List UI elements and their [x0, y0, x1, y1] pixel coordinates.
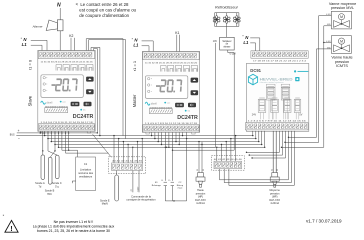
svg-text:40 41 42 43 44 45 46: 40 41 42 43 44 45 46 — [112, 160, 143, 162]
controller U3 brand wordmark — [260, 78, 294, 85]
wire dc91 stair 2 — [249, 131, 283, 156]
version label — [306, 219, 342, 224]
wire slave edge pair a — [94, 48, 98, 133]
svg-text:24V: 24V — [252, 113, 257, 116]
wire alarm to terminal 26 — [59, 31, 61, 51]
wire drive control 0-10V — [172, 50, 234, 151]
device U2-master display panel — [145, 76, 187, 99]
device U2-master set button — [175, 103, 184, 108]
wire block X2 loop 1 — [220, 131, 289, 180]
pressure sensor HP pin labels — [197, 169, 205, 171]
label vanne moyenne pression — [329, 2, 356, 10]
svg-text:HEVVEL·BRED: HEVVEL·BRED — [260, 78, 294, 82]
label sonde B — [45, 190, 55, 196]
svg-text:DC91: DC91 — [250, 68, 261, 73]
label BUS — [10, 135, 15, 137]
wire MVL signal — [284, 16, 331, 143]
valve MVL body — [331, 11, 351, 29]
svg-text:11 31 32 33 26 41 28 26 23 03: 11 31 32 33 26 41 28 26 23 03 25 24 21 3… — [145, 63, 198, 65]
controller U3 output block 3 — [283, 98, 291, 119]
device U2-master DIN rail feet — [146, 132, 195, 134]
device U1-slave model label DC24TR — [73, 114, 94, 120]
wire dc91 terminal drop 3 — [258, 131, 259, 142]
device U1-slave top terminal numbers — [41, 62, 94, 64]
device U2-master brand logo row — [145, 102, 170, 106]
pressure sensor MP wires — [273, 131, 276, 173]
wire MVL ground — [281, 26, 332, 148]
device U1-slave brand logo row — [41, 101, 66, 105]
device U1-slave body — [38, 50, 95, 131]
device U2-master up button — [191, 78, 199, 83]
wire 10V signal — [166, 43, 215, 148]
wire master terminal drop 5 — [168, 132, 169, 148]
wire slave terminal drop 5 — [54, 131, 55, 145]
label sonde E — [100, 200, 110, 206]
svg-text:est coupé en cas d’alarme ou: est coupé en cas d’alarme ou — [79, 8, 136, 13]
device U2-master programming connector — [149, 107, 172, 113]
wire N to alarm relay — [59, 8, 61, 20]
wire shield diagonal — [93, 134, 112, 157]
svg-text:V₂: V₂ — [168, 180, 170, 182]
wire block X1 feed 6 — [137, 141, 138, 163]
svg-text:Slave: Slave — [28, 95, 33, 106]
controller U3 output block 1 — [258, 98, 266, 119]
wire block X1 feed 4 — [127, 144, 128, 163]
label GND valve MVL — [327, 24, 332, 26]
controller U3 relay header boxes — [266, 84, 289, 87]
svg-text:Ne pas inverser L1 et N !!: Ne pas inverser L1 et N !! — [54, 220, 94, 224]
svg-text:L1: L1 — [22, 42, 28, 47]
svg-text:nocturne des: nocturne des — [78, 171, 94, 175]
wire bus line 3 — [51, 141, 258, 143]
device U1-slave bottom terminal numbers — [41, 122, 94, 124]
label BY — [131, 188, 133, 191]
wire MP sensor feed a — [272, 131, 274, 173]
svg-text:care: care — [167, 102, 170, 105]
wire fans to drive — [226, 26, 228, 37]
label bus minus — [18, 137, 20, 141]
label Alarme — [32, 25, 43, 29]
svg-text:Commande de la: Commande de la — [131, 194, 151, 198]
svg-text:17 18 19 16 17 18 21 22 23 24: 17 18 19 16 17 18 21 22 23 24 1 2 3 4 — [253, 61, 307, 63]
fan bank frame — [215, 13, 239, 27]
device U1-slave display panel — [41, 75, 83, 98]
wire master to contact C2 — [171, 132, 173, 180]
controller U3 bottom terminal strip — [245, 123, 308, 130]
svg-text:DC24TR: DC24TR — [73, 114, 94, 120]
wire setpoint cmd b — [138, 171, 140, 193]
svg-text:r1 = 0: r1 = 0 — [28, 59, 33, 70]
wire master terminal drop 2 — [154, 132, 155, 139]
wire L1 into master — [142, 46, 149, 52]
label L1 phase dc91 — [243, 40, 249, 45]
wire master terminal drop 8 — [182, 132, 183, 136]
wire slave terminal drop 2 — [44, 131, 45, 136]
wire bus line 2 — [48, 138, 256, 140]
wire master terminal drop 4 — [161, 132, 162, 145]
device U1-slave bottom terminal strip — [38, 124, 94, 131]
HP sensor bus taps — [198, 141, 202, 145]
wire K2 contact b — [74, 38, 76, 51]
svg-text:7DC: 7DC — [47, 193, 52, 196]
pressure sensor HP wires — [199, 142, 202, 173]
svg-text:Limitation: Limitation — [80, 168, 92, 172]
svg-text:BUS: BUS — [10, 135, 15, 137]
svg-text:r1 = 1: r1 = 1 — [132, 60, 137, 71]
svg-text:dixell: dixell — [46, 101, 52, 105]
svg-text:13: 13 — [197, 169, 199, 171]
wire block X2 feed 3 — [226, 141, 227, 161]
svg-text:K2: K2 — [69, 34, 73, 38]
device U2-master bottom terminal strip — [143, 125, 199, 132]
svg-text:DC24TR: DC24TR — [177, 115, 198, 121]
device U2-master top connector silhouettes — [161, 65, 198, 71]
controller U3 24V label — [252, 113, 257, 116]
label vanne haute pression — [331, 56, 352, 68]
pressure sensor MP body — [270, 173, 279, 188]
label sonde C — [52, 182, 62, 188]
svg-text:ventilateurs: ventilateurs — [79, 174, 93, 178]
svg-text:1 2 3 4 5 6 7 8 9 10 11 12 13: 1 2 3 4 5 6 7 8 9 10 11 12 13 14 15 16 — [248, 121, 307, 123]
svg-text:vitesse: vitesse — [223, 46, 231, 49]
label GND valve ICMTS — [327, 47, 332, 49]
controller U3 relay column K-B — [281, 86, 290, 119]
device U2-master bottom terminal numbers — [145, 123, 198, 125]
label N phase master — [132, 37, 139, 42]
wire K1 contact b — [179, 35, 181, 52]
fan speed drive box — [220, 37, 235, 50]
valve ICMTS body — [331, 36, 351, 54]
device U1-slave DIN rail feet — [41, 131, 90, 133]
controller U3 DC91 top terminal numbers — [253, 61, 307, 63]
warning triangle — [5, 220, 18, 232]
wire block X1 feed 3 — [123, 141, 124, 163]
terminal connection dots — [40, 132, 70, 133]
device U2-master model label DC24TR — [177, 115, 198, 121]
wire master right drop — [186, 132, 187, 139]
device U1-slave set button — [71, 102, 80, 107]
label 10V — [213, 41, 218, 43]
wire block X1 feed 5 — [132, 147, 133, 163]
device U2-master down button — [191, 90, 199, 95]
terminal block X2 dashed box — [211, 156, 244, 171]
device U2-master enter button — [188, 103, 196, 108]
wire to probe A — [42, 131, 43, 155]
label L1 phase master — [133, 43, 139, 48]
device U1-slave down button — [86, 89, 94, 94]
label V1 V2 — [161, 180, 170, 182]
label N phase dc91 — [242, 35, 249, 40]
wire block X1 feed 1 — [113, 135, 114, 163]
wire dc91 stair 3 — [251, 131, 285, 159]
wire bus plus — [17, 132, 98, 133]
svg-text:link: link — [83, 110, 86, 112]
wire slave terminal drop 3 — [47, 131, 48, 139]
wire to C1 contact — [62, 131, 78, 157]
wire daisy chain b — [89, 40, 126, 139]
wire bus line 5 — [59, 146, 265, 148]
wire block X2 feed 1 — [216, 147, 217, 162]
svg-text:M: M — [340, 15, 343, 19]
wire slave terminal drop 1 — [40, 131, 41, 134]
svg-text:+: + — [18, 129, 20, 133]
wire master terminal drop 3 — [158, 132, 159, 142]
svg-text:12: 12 — [203, 169, 205, 171]
svg-text:C1: C1 — [84, 162, 88, 166]
label 0-10V drive — [230, 53, 237, 55]
wire dc91 terminal drop 4 — [261, 131, 262, 145]
device U1-slave top connector silhouettes — [56, 64, 93, 70]
pressure sensor HP label — [195, 189, 206, 205]
wire bus line 1 — [45, 135, 253, 137]
terminal block X1 dashed box — [109, 157, 146, 174]
wire N into dc91 — [250, 38, 260, 51]
svg-text:climate control systems: climate control systems — [260, 81, 284, 84]
wire dc91 terminal drop 1 — [252, 131, 253, 136]
controller U3 output block 4 — [294, 98, 301, 119]
device U1-slave top terminal strip — [38, 51, 94, 59]
pressure sensor MP label — [269, 189, 280, 205]
svg-text:link: link — [188, 111, 191, 113]
wire block X1 feed 7 — [142, 138, 143, 163]
label C2 recup — [177, 182, 184, 190]
wire to probe C crossover — [48, 139, 57, 156]
svg-text:0V: 0V — [299, 113, 302, 116]
device U1-slave up button — [86, 77, 94, 82]
svg-text:0-10V: 0-10V — [230, 53, 237, 55]
label E1 — [152, 182, 162, 187]
warning text — [33, 220, 115, 233]
controller U3 output block 2 — [271, 98, 279, 119]
label N phase slave — [21, 37, 28, 42]
probe E capsule — [115, 171, 119, 202]
wire setpoint cmd a — [132, 171, 134, 193]
alarm horn symbol — [46, 20, 57, 30]
C1 limitation box — [76, 157, 96, 191]
controller U3 0V label — [299, 113, 302, 116]
device U2-master body — [142, 51, 199, 132]
wire N into master — [142, 41, 154, 52]
device U1-slave display digits -20.7 — [52, 78, 78, 91]
label sonde A — [35, 182, 45, 188]
wire master terminal drop 1 — [151, 132, 152, 136]
wire block X2 loop 2 — [224, 131, 291, 183]
label K1 — [175, 31, 179, 35]
wire MP sensor feed b — [275, 131, 277, 173]
svg-text:1) Le contact entre 26 et 28: 1) Le contact entre 26 et 28 — [76, 2, 130, 7]
svg-text:Master: Master — [132, 94, 137, 107]
svg-text:MatN: MatN — [102, 203, 108, 206]
wire contacts common — [165, 139, 186, 202]
note contact 26-28 — [76, 2, 137, 18]
wire dc91 terminal drop 5 — [264, 131, 265, 148]
fan M3 — [233, 13, 241, 27]
pressure sensor HP body — [196, 173, 205, 188]
label bus plus — [18, 129, 20, 133]
device U1-slave programming connector — [45, 106, 68, 112]
wire slave aux to block X1 — [66, 131, 109, 153]
wire bus minus — [16, 135, 44, 137]
svg-text:10V: 10V — [213, 41, 218, 43]
label 0-10V cmd — [137, 186, 139, 191]
device U2-master top terminal numbers — [145, 63, 198, 65]
svg-text:bornes 21, 23, 25, 26 et le ne: bornes 21, 23, 25, 26 et le neutre à la … — [37, 229, 110, 233]
wire slave edge pair b — [91, 47, 101, 136]
svg-text:pression MVL: pression MVL — [331, 6, 354, 10]
svg-text:care: care — [62, 101, 65, 104]
svg-text:4-20mA: 4-20mA — [270, 202, 279, 205]
device U1-slave role label — [28, 95, 33, 106]
contact C2 symbol — [171, 182, 174, 201]
wire block X2 loop 3 — [229, 131, 294, 186]
wire L1 into slave — [31, 45, 42, 50]
controller U3 comms led — [294, 70, 308, 72]
svg-text:La phase L1 doit être impérati: La phase L1 doit être impérativement con… — [33, 225, 115, 229]
C1 contact tick — [72, 181, 75, 183]
device U2-master top terminal strip — [143, 52, 199, 60]
asterisk note mark — [3, 213, 5, 218]
svg-text:L1: L1 — [133, 43, 139, 48]
svg-text:Refroidisseur: Refroidisseur — [215, 5, 239, 10]
contact E1 symbol — [164, 182, 167, 201]
wire master to contact E1 — [165, 132, 166, 180]
fan M1 — [213, 13, 221, 27]
svg-text:maxi: maxi — [178, 188, 183, 190]
svg-text:–: – — [18, 137, 20, 141]
svg-text:!: ! — [10, 224, 13, 233]
wire block X1 feed 2 — [118, 138, 119, 163]
wire bus line 4 — [55, 144, 262, 146]
wire N into slave — [31, 40, 47, 50]
controller U3 DC91 body — [246, 64, 308, 132]
wire L1 into dc91 — [250, 43, 255, 51]
alarm relay coil K2 — [57, 20, 63, 31]
wire slave terminal drop 6 — [58, 131, 59, 148]
svg-text:Variateur: Variateur — [222, 40, 231, 43]
svg-text:12: 12 — [277, 169, 279, 171]
controller U3 relay column K-A — [266, 86, 275, 119]
svg-text:11 31 32 33 26 41 28 26 23 03: 11 31 32 33 26 41 28 26 23 03 25 24 21 3… — [41, 62, 94, 64]
label 0-10V valve MVL — [326, 14, 331, 16]
wire master terminal drop 6 — [175, 132, 176, 142]
svg-text:dixell: dixell — [151, 102, 157, 106]
wire block X2 feed 5 — [235, 135, 236, 161]
net N supply label top — [57, 2, 61, 8]
svg-text:Alarme: Alarme — [32, 25, 43, 29]
controller U3 DC91 top terminal strip — [251, 51, 308, 58]
svg-text:5’q: 5’q — [55, 185, 59, 188]
wire dc91 stair 1 — [246, 131, 280, 153]
device U1-slave enter button — [84, 102, 92, 107]
device U2-master display digits -20.7 — [156, 79, 182, 92]
wire ICMTS ground — [288, 49, 332, 138]
svg-text:Éclairage: Éclairage — [152, 184, 162, 187]
svg-text:de coupure d’alimentation: de coupure d’alimentation — [79, 13, 129, 18]
svg-text:40 41 42 43 44 45 46: 40 41 42 43 44 45 46 — [214, 159, 243, 161]
wire to probe B crossover — [50, 145, 56, 158]
device U1-slave status led — [80, 109, 85, 112]
label K2 — [69, 34, 73, 38]
controller U3 model label DC91 — [250, 68, 261, 73]
device U2-master mode label — [132, 60, 137, 71]
wire block X2 feed 2 — [221, 144, 222, 161]
svg-text:v1.7 / 30.07.2019: v1.7 / 30.07.2019 — [306, 219, 342, 224]
device U2-master role label — [132, 94, 137, 107]
device U1-slave mode label — [28, 59, 33, 70]
device U2-master status led — [185, 110, 190, 113]
controller U3 cube logo — [248, 74, 257, 85]
wire master terminal drop 7 — [179, 132, 180, 145]
svg-text:ICMTS: ICMTS — [336, 64, 348, 68]
label 0-10V valve ICMTS — [326, 41, 331, 43]
fan M2 — [223, 13, 231, 27]
label Refroidisseur — [215, 5, 239, 10]
svg-text:M: M — [340, 39, 343, 43]
wire daisy chain a — [86, 39, 123, 136]
label commande consigne — [126, 194, 156, 201]
wire block X2 feed 4 — [230, 138, 231, 161]
controller U3 teal badge — [295, 77, 299, 81]
controller U3 bottom terminal numbers — [248, 121, 307, 123]
svg-text:K1: K1 — [175, 31, 179, 35]
probe A capsule — [41, 155, 45, 180]
wire ICMTS signal junction — [323, 42, 331, 43]
wire slave aux 2 — [68, 131, 70, 150]
svg-text:L1: L1 — [243, 40, 249, 45]
label L1 phase slave — [22, 42, 28, 47]
svg-text:Récup: Récup — [177, 185, 184, 187]
svg-text:4-20mA: 4-20mA — [196, 202, 205, 205]
probe C capsule — [55, 155, 59, 179]
wire dc91 terminal drop 2 — [255, 131, 256, 139]
svg-text:N: N — [57, 2, 61, 8]
svg-text:consigne de récupération: consigne de récupération — [126, 198, 156, 202]
wire K1 contact a — [176, 35, 178, 52]
pressure sensor MP pin labels — [271, 169, 279, 171]
probe B capsule — [48, 157, 52, 184]
wire K2 contact a — [70, 38, 72, 51]
wire slave terminal drop 4 — [51, 131, 52, 142]
